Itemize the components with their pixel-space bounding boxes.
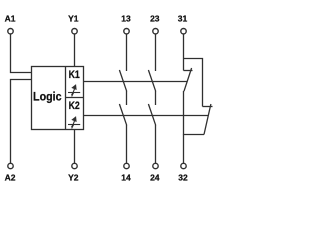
node 23: [150, 14, 160, 34]
contact blade 13 row1: [119, 70, 126, 91]
svg-text:Y1: Y1: [68, 14, 79, 24]
svg-text:32: 32: [178, 172, 188, 182]
wire Y1 to box top: [74, 34, 76, 67]
branch wire to NC2: [184, 59, 203, 107]
NC1 blade: [184, 68, 192, 91]
contact blade 23 row1: [148, 70, 155, 91]
node 13: [121, 14, 131, 34]
node Y1: [68, 14, 79, 34]
NC2 blade: [204, 104, 211, 135]
node A1: [5, 14, 16, 34]
relay K1 coil symbol: [68, 85, 80, 96]
contact blade 13 row2: [119, 104, 126, 125]
wire junction to 32: [183, 135, 185, 164]
logic module box: [32, 67, 84, 130]
svg-text:K1: K1: [69, 69, 80, 81]
wire A2 to Logic box: [11, 80, 32, 164]
NC1 fixed bar: [184, 70, 193, 72]
wire 13 down: [126, 34, 128, 71]
node 24: [150, 163, 160, 182]
svg-text:Y2: Y2: [68, 172, 79, 182]
node 14: [121, 163, 131, 182]
divider K1 / K2: [66, 97, 84, 99]
wire Y2 to box bottom: [74, 130, 76, 164]
NC2 fixed bar: [203, 106, 213, 108]
node Y2: [68, 163, 79, 182]
contact blade 23 row2: [148, 104, 155, 125]
K2 actuation line to contacts: [84, 115, 209, 117]
node 32: [178, 163, 188, 182]
svg-text:13: 13: [121, 14, 131, 24]
node 31: [178, 14, 188, 34]
wire between contacts col 23: [155, 91, 157, 105]
wire to 24: [155, 125, 157, 163]
wire 31 down to NC1: [183, 34, 185, 71]
wire to 14: [126, 125, 128, 163]
wire between contacts col 13: [126, 91, 128, 105]
divider Logic / K column: [65, 67, 67, 130]
svg-text:24: 24: [150, 172, 160, 182]
wire NC1 bottom to junction: [184, 91, 205, 135]
svg-text:K2: K2: [69, 100, 80, 112]
svg-text:14: 14: [121, 172, 131, 182]
relay K2 coil symbol: [68, 117, 80, 128]
svg-text:31: 31: [178, 14, 188, 24]
wire 23 down: [155, 34, 157, 71]
wire A1 to Logic box: [11, 34, 32, 73]
svg-text:Logic: Logic: [33, 90, 62, 103]
svg-text:A1: A1: [5, 14, 16, 24]
svg-text:A2: A2: [5, 172, 16, 182]
K1 actuation line to contacts: [84, 81, 188, 83]
svg-text:23: 23: [150, 14, 160, 24]
node A2: [5, 163, 16, 182]
